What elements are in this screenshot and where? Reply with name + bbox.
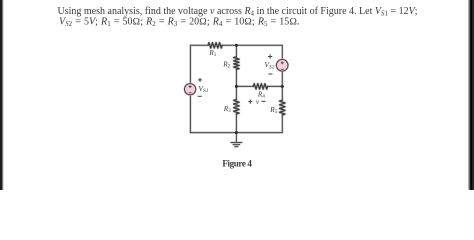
node A dot — [235, 44, 238, 47]
node C dot — [235, 131, 238, 134]
label minus of v across R4 — [261, 100, 265, 102]
Vs2 internal plus — [281, 61, 284, 64]
node D dot — [235, 85, 238, 88]
resistor halo layer — [208, 43, 285, 115]
left page border outer — [0, 0, 1, 190]
Vs2 internal minus — [281, 68, 284, 70]
node B dot — [281, 85, 284, 88]
voltage source Vs1 — [185, 84, 196, 95]
svg-text:Figure 4: Figure 4 — [222, 159, 252, 169]
right page border bar core — [470, 0, 472, 190]
label Vs2 plus sign — [268, 54, 272, 58]
label plus of v across R4 — [248, 100, 252, 104]
Vs1 internal plus — [189, 85, 192, 88]
voltage source Vs2 — [276, 60, 288, 72]
label Vs1 minus sign — [198, 95, 202, 97]
right page border bar edge ramp — [469, 0, 470, 190]
circuit wiring halo layer — [190, 45, 282, 146]
Vs1 internal minus — [189, 92, 192, 94]
circuit wiring ink layer — [190, 45, 282, 146]
left page border core — [1, 0, 2, 190]
resistor ink layer — [208, 43, 285, 115]
label Vs2 minus sign — [268, 73, 272, 75]
right page border bar outer — [472, 0, 474, 190]
left page border soft edge — [2, 0, 3, 190]
label Vs1 plus sign — [198, 78, 202, 82]
svg-text:VS2 = 5V; R1 = 50Ω; R2 = R3 =: VS2 = 5V; R1 = 50Ω; R2 = R3 = 20Ω; R4 = … — [59, 16, 300, 28]
right page border bar soft edge — [468, 0, 470, 190]
